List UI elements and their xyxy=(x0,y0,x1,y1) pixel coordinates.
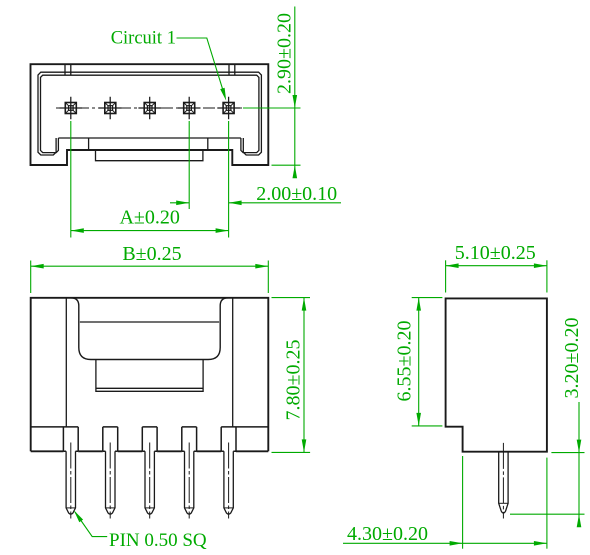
side view pin xyxy=(499,443,508,519)
dimension 5.10±0.25 dimension line xyxy=(446,265,547,267)
svg-text:7.80±0.25: 7.80±0.25 xyxy=(283,340,305,421)
pin 2 top view square contact xyxy=(99,97,122,119)
svg-text:Circuit 1: Circuit 1 xyxy=(111,28,176,48)
front view: cavity back wall top edge xyxy=(80,321,219,323)
dimension 2.90±0.20 extension line at pin row xyxy=(243,107,301,109)
front view: housing outline top and sides xyxy=(31,298,269,452)
dimension 7.80±0.25 extension lines xyxy=(272,297,311,299)
svg-text:3.20±0.20: 3.20±0.20 xyxy=(561,318,583,399)
pin 1 top view square contact xyxy=(60,97,83,119)
top view: pin row centerline xyxy=(56,107,243,109)
dimension A±0.20 dimension line xyxy=(71,230,229,232)
front view: end block inner edges xyxy=(66,298,232,427)
top view: connector housing outer boundary xyxy=(31,64,269,165)
dimension 2.90±0.20 dimension line xyxy=(294,7,296,179)
extension line from pin 1 xyxy=(70,121,72,238)
svg-text:PIN 0.50 SQ: PIN 0.50 SQ xyxy=(109,530,207,551)
pin 4 front view xyxy=(185,443,194,519)
top view: polarization slot right xyxy=(229,64,235,75)
front view: bottom edge segments xyxy=(31,450,269,452)
pin 5 front view xyxy=(224,443,233,519)
front view: tower shoulder line xyxy=(31,426,269,428)
top view: center tab upper (sides) xyxy=(89,138,208,150)
dimension 2.00±0.10 dimension line with outside arrows xyxy=(170,202,189,204)
dimension 7.80±0.25 dimension line xyxy=(303,298,305,453)
dimension 3.20±0.20 dimension line xyxy=(578,402,580,527)
top view: center tab lower xyxy=(96,150,203,161)
pin 2 front view xyxy=(106,443,116,519)
front view: center tab xyxy=(96,360,203,392)
svg-text:6.55±0.20: 6.55±0.20 xyxy=(393,321,415,402)
pin 1 front view xyxy=(66,443,75,519)
pin 5 top view square contact xyxy=(217,97,240,119)
svg-text:A±0.20: A±0.20 xyxy=(119,207,179,229)
front view: pin tower bottom stubs xyxy=(63,450,236,452)
dimension 5.10±0.25 extension lines xyxy=(445,260,447,292)
top view: inner cavity wall inner contour xyxy=(41,75,259,152)
extension line from pin 4 xyxy=(188,121,190,209)
top view: polarization slot left xyxy=(65,64,71,75)
pin 3 front view xyxy=(145,443,154,519)
label PIN 0.50 SQ leader xyxy=(75,512,107,537)
dimension 4.30±0.20 extension lines xyxy=(462,456,464,549)
top view: inner cavity wall outer contour xyxy=(38,72,261,155)
leader arrow for Circuit 1 xyxy=(220,88,226,101)
side view: housing outline with step xyxy=(446,298,547,451)
dimension 4.30±0.20 dimension line xyxy=(343,542,547,544)
svg-text:5.10±0.25: 5.10±0.25 xyxy=(455,242,536,264)
dimension 6.55±0.20 extension lines xyxy=(412,297,443,299)
svg-text:B±0.25: B±0.25 xyxy=(122,243,181,265)
svg-text:4.30±0.20: 4.30±0.20 xyxy=(347,523,428,545)
svg-text:2.90±0.20: 2.90±0.20 xyxy=(274,13,296,94)
front view: mating cavity outline xyxy=(71,298,228,360)
pin 3 top view square contact xyxy=(138,97,161,119)
dimension 3.20±0.20 extension lines xyxy=(551,452,584,454)
dimension 6.55±0.20 dimension line xyxy=(418,298,420,426)
dimension B±0.25 extension lines xyxy=(30,261,32,294)
dimension B±0.25 dimension line xyxy=(31,265,269,267)
dimension 2.90±0.20 extension line at housing bottom xyxy=(272,164,301,166)
pin 4 top view square contact xyxy=(178,97,201,119)
extension line from pin 5 xyxy=(228,121,230,238)
leader line for Circuit 1 xyxy=(177,38,225,96)
top view: cavity floor line xyxy=(58,137,241,139)
dimension 2.90±0.20 arrows xyxy=(293,95,298,108)
front view: pin tower sides xyxy=(63,427,236,451)
svg-text:2.00±0.10: 2.00±0.10 xyxy=(256,183,337,205)
